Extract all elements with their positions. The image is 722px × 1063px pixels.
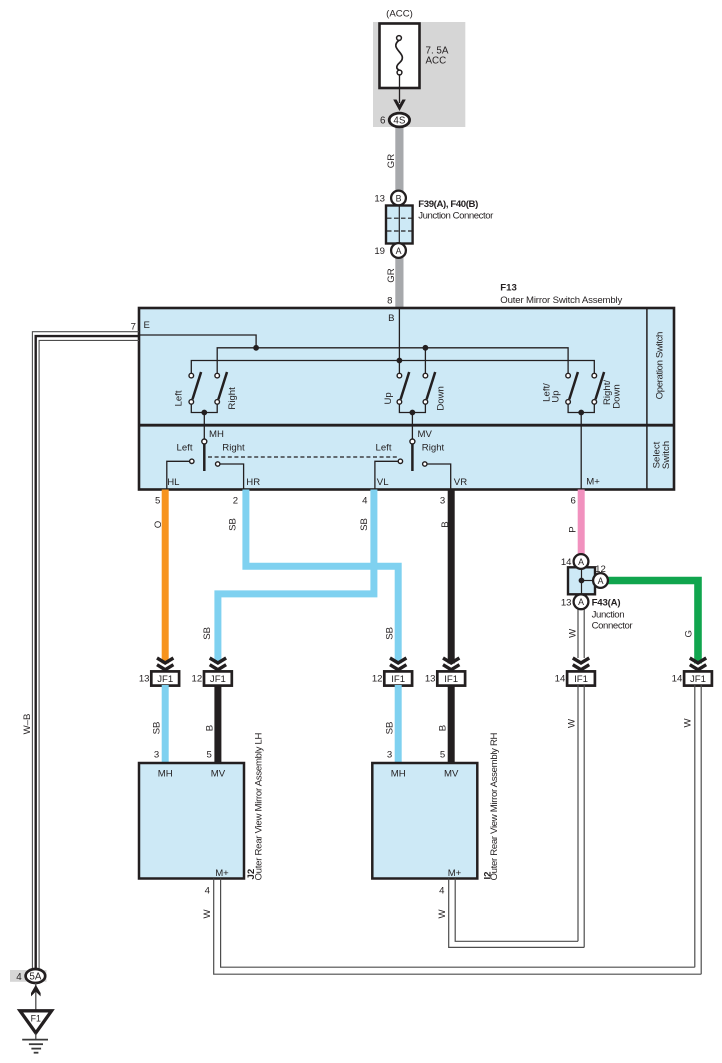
svg-text:19: 19 (374, 246, 385, 257)
svg-text:SB: SB (359, 518, 370, 531)
svg-text:IF1: IF1 (391, 674, 405, 685)
svg-text:A: A (396, 246, 402, 256)
svg-text:Left: Left (375, 443, 391, 454)
svg-text:A: A (578, 597, 584, 607)
svg-text:13: 13 (374, 194, 385, 205)
svg-text:Right: Right (422, 443, 445, 454)
svg-text:M+: M+ (215, 868, 229, 879)
svg-text:B: B (388, 313, 394, 324)
svg-text:Right: Right (227, 387, 238, 410)
svg-text:JF1: JF1 (210, 674, 226, 685)
svg-text:3: 3 (387, 750, 392, 761)
svg-text:4: 4 (16, 972, 22, 983)
svg-text:4: 4 (362, 495, 368, 506)
svg-text:MV: MV (444, 769, 459, 780)
svg-text:5A: 5A (29, 972, 41, 983)
svg-text:MV: MV (418, 429, 433, 440)
svg-text:13: 13 (561, 598, 572, 609)
svg-text:B: B (440, 521, 451, 527)
svg-text:14: 14 (672, 674, 683, 685)
svg-text:JF1: JF1 (690, 674, 706, 685)
svg-text:14: 14 (561, 557, 572, 568)
svg-text:B: B (396, 193, 402, 203)
svg-text:SB: SB (152, 722, 163, 735)
svg-text:P: P (567, 526, 578, 532)
svg-text:IF1: IF1 (444, 674, 458, 685)
svg-text:Outer Rear View Mirror Assembl: Outer Rear View Mirror Assembly LH (254, 732, 265, 880)
svg-text:M+: M+ (448, 868, 462, 879)
svg-text:VL: VL (377, 477, 389, 488)
svg-text:F13: F13 (500, 283, 517, 294)
svg-text:5: 5 (155, 495, 160, 506)
svg-text:(ACC): (ACC) (386, 9, 413, 20)
svg-text:JF1: JF1 (157, 674, 173, 685)
svg-text:Connector: Connector (592, 621, 634, 632)
svg-text:8: 8 (387, 295, 392, 306)
svg-text:G: G (684, 630, 695, 637)
svg-text:3: 3 (154, 750, 159, 761)
svg-text:Outer Mirror Switch Assembly: Outer Mirror Switch Assembly (500, 295, 622, 306)
svg-text:W: W (566, 718, 577, 728)
svg-text:7: 7 (131, 322, 136, 333)
svg-text:M+: M+ (586, 477, 600, 488)
svg-text:3: 3 (440, 495, 445, 506)
svg-text:MH: MH (158, 769, 173, 780)
svg-text:HL: HL (167, 477, 180, 488)
svg-text:Up: Up (550, 390, 561, 402)
svg-text:Right: Right (222, 443, 245, 454)
svg-text:5: 5 (207, 750, 212, 761)
svg-text:Junction: Junction (592, 609, 625, 620)
svg-text:6: 6 (380, 116, 386, 127)
svg-text:SB: SB (227, 518, 238, 531)
svg-text:Up: Up (383, 392, 394, 404)
svg-text:12: 12 (192, 674, 203, 685)
svg-text:F1: F1 (31, 1014, 41, 1024)
svg-text:W: W (437, 909, 448, 919)
svg-text:Down: Down (435, 386, 446, 411)
svg-text:Down: Down (612, 384, 623, 409)
svg-text:B: B (204, 725, 215, 731)
svg-text:A: A (598, 576, 604, 586)
svg-text:MV: MV (211, 769, 226, 780)
svg-text:SB: SB (385, 722, 396, 735)
svg-text:Left: Left (176, 443, 192, 454)
svg-text:E: E (144, 320, 150, 331)
svg-text:IF1: IF1 (574, 674, 588, 685)
svg-text:SB: SB (202, 627, 213, 640)
svg-text:12: 12 (595, 564, 606, 575)
svg-text:A: A (578, 557, 584, 567)
svg-text:Left: Left (173, 390, 184, 406)
svg-text:Operation Switch: Operation Switch (655, 332, 666, 400)
svg-text:6: 6 (571, 495, 576, 506)
svg-text:Junction Connector: Junction Connector (418, 210, 494, 221)
svg-text:MH: MH (209, 429, 224, 440)
svg-text:VR: VR (454, 477, 467, 488)
svg-text:W–B: W–B (22, 714, 33, 735)
svg-text:HR: HR (246, 477, 260, 488)
svg-text:SB: SB (384, 627, 395, 640)
svg-text:Switch: Switch (661, 441, 672, 469)
svg-text:F39(A), F40(B): F39(A), F40(B) (418, 199, 478, 210)
svg-text:13: 13 (425, 674, 436, 685)
svg-text:5: 5 (440, 750, 445, 761)
svg-text:B: B (438, 725, 449, 731)
svg-text:W: W (567, 628, 578, 638)
svg-text:4: 4 (205, 886, 211, 897)
svg-text:4S: 4S (393, 116, 405, 127)
svg-text:14: 14 (555, 674, 566, 685)
svg-text:2: 2 (233, 495, 238, 506)
svg-text:12: 12 (372, 674, 383, 685)
svg-text:W: W (683, 718, 694, 728)
svg-text:ACC: ACC (426, 56, 447, 67)
svg-text:13: 13 (139, 674, 150, 685)
svg-text:W: W (202, 909, 213, 919)
svg-text:GR: GR (386, 154, 397, 168)
svg-text:F43(A): F43(A) (592, 598, 621, 609)
svg-text:GR: GR (386, 268, 397, 282)
svg-text:O: O (153, 521, 164, 528)
svg-text:Outer Rear View Mirror Assembl: Outer Rear View Mirror Assembly RH (489, 732, 500, 880)
svg-text:MH: MH (391, 769, 406, 780)
svg-text:4: 4 (439, 886, 445, 897)
